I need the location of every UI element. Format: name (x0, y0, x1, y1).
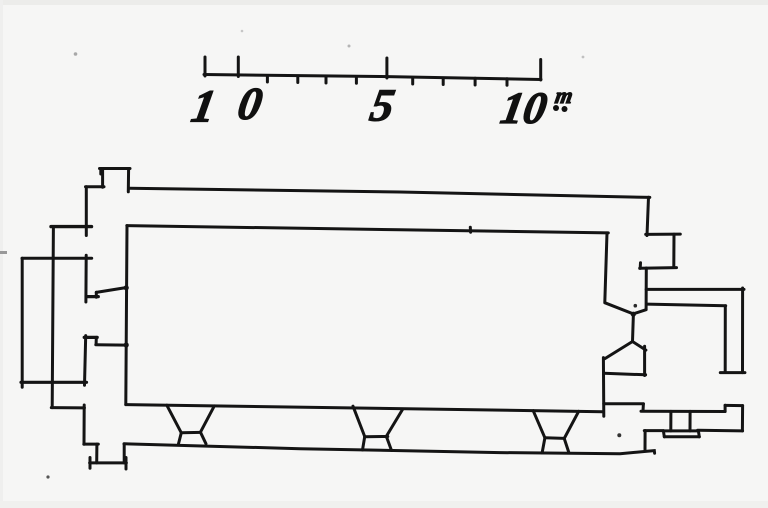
outer right wall below door (643, 346, 646, 375)
scale bar tall tick 10 (539, 60, 542, 81)
svg-text:10: 10 (497, 83, 551, 133)
right notch (646, 233, 681, 236)
top-left notch top (100, 167, 131, 170)
reveal 1 slant (96, 288, 126, 293)
left wall bottom segment (83, 405, 86, 444)
mid-left wall segment 2 (84, 255, 87, 302)
junction blob reveal 2 / nave wall (124, 342, 129, 347)
chapel top main (641, 410, 725, 413)
right porch outer top (646, 288, 744, 291)
door lower splay (605, 342, 646, 359)
far-left rect bottom (21, 381, 87, 384)
right porch inner right (724, 306, 727, 372)
reveal 2 slant (96, 343, 127, 346)
mid-left wall segment 3 (85, 336, 86, 386)
right porch bottom (720, 371, 745, 374)
outer top wall (129, 188, 650, 197)
step bottom 1 (84, 443, 99, 446)
chapel lower box (663, 429, 698, 432)
ink dot near door (634, 304, 638, 308)
outer bottom wall (124, 444, 655, 454)
pier 3 (533, 411, 545, 438)
chapel right (741, 406, 744, 431)
right porch inner top (647, 304, 726, 306)
scale bar main line (204, 75, 541, 80)
chapel inner vertical 2 (689, 411, 692, 431)
chapel left vertical to bottom wall (644, 431, 647, 450)
scale bar minor ticks (266, 76, 269, 83)
nave left (126, 226, 127, 405)
door upper splay (605, 303, 646, 314)
left wall upper segment (85, 187, 88, 236)
reveal 1 stub (86, 295, 98, 298)
junction blob door waist (631, 312, 636, 317)
notch right vertical (127, 169, 130, 192)
step horizontal (86, 185, 105, 188)
chapel top left (604, 402, 644, 405)
chapel bottom left (644, 429, 663, 432)
nave bottom (126, 405, 603, 412)
chapel bottom right (698, 429, 743, 433)
specks (617, 433, 621, 437)
step bottom 2 (90, 461, 127, 464)
abbreviation dots under m (553, 105, 559, 111)
scale bar numerals (188, 79, 576, 133)
bottom-left horizontal (51, 406, 84, 409)
scale bar tall tick 5 (385, 58, 388, 78)
outer right wall top (647, 197, 649, 235)
door waist (631, 314, 635, 342)
chapel top right (725, 404, 743, 407)
scale bar tall tick 1 (204, 57, 207, 76)
nave right upper (605, 233, 607, 303)
pier 2 (353, 406, 365, 436)
reveal 2 stub (84, 336, 97, 339)
outer right wall mid (645, 268, 648, 309)
nave right lower (602, 358, 605, 417)
junction blob reveal 1 / nave wall (124, 285, 129, 290)
thick horizontal left (51, 225, 92, 228)
long outer left wall (52, 227, 53, 408)
nave top (127, 226, 609, 233)
scale bar tall tick 0 (237, 57, 240, 77)
pier 1 (167, 405, 182, 433)
chapel inner vertical 1 (669, 411, 672, 431)
notch left vertical (101, 169, 104, 188)
far-left rect left (21, 258, 24, 387)
door sill (604, 373, 646, 375)
right porch outer right (741, 288, 744, 373)
far-left rect top (22, 257, 92, 260)
